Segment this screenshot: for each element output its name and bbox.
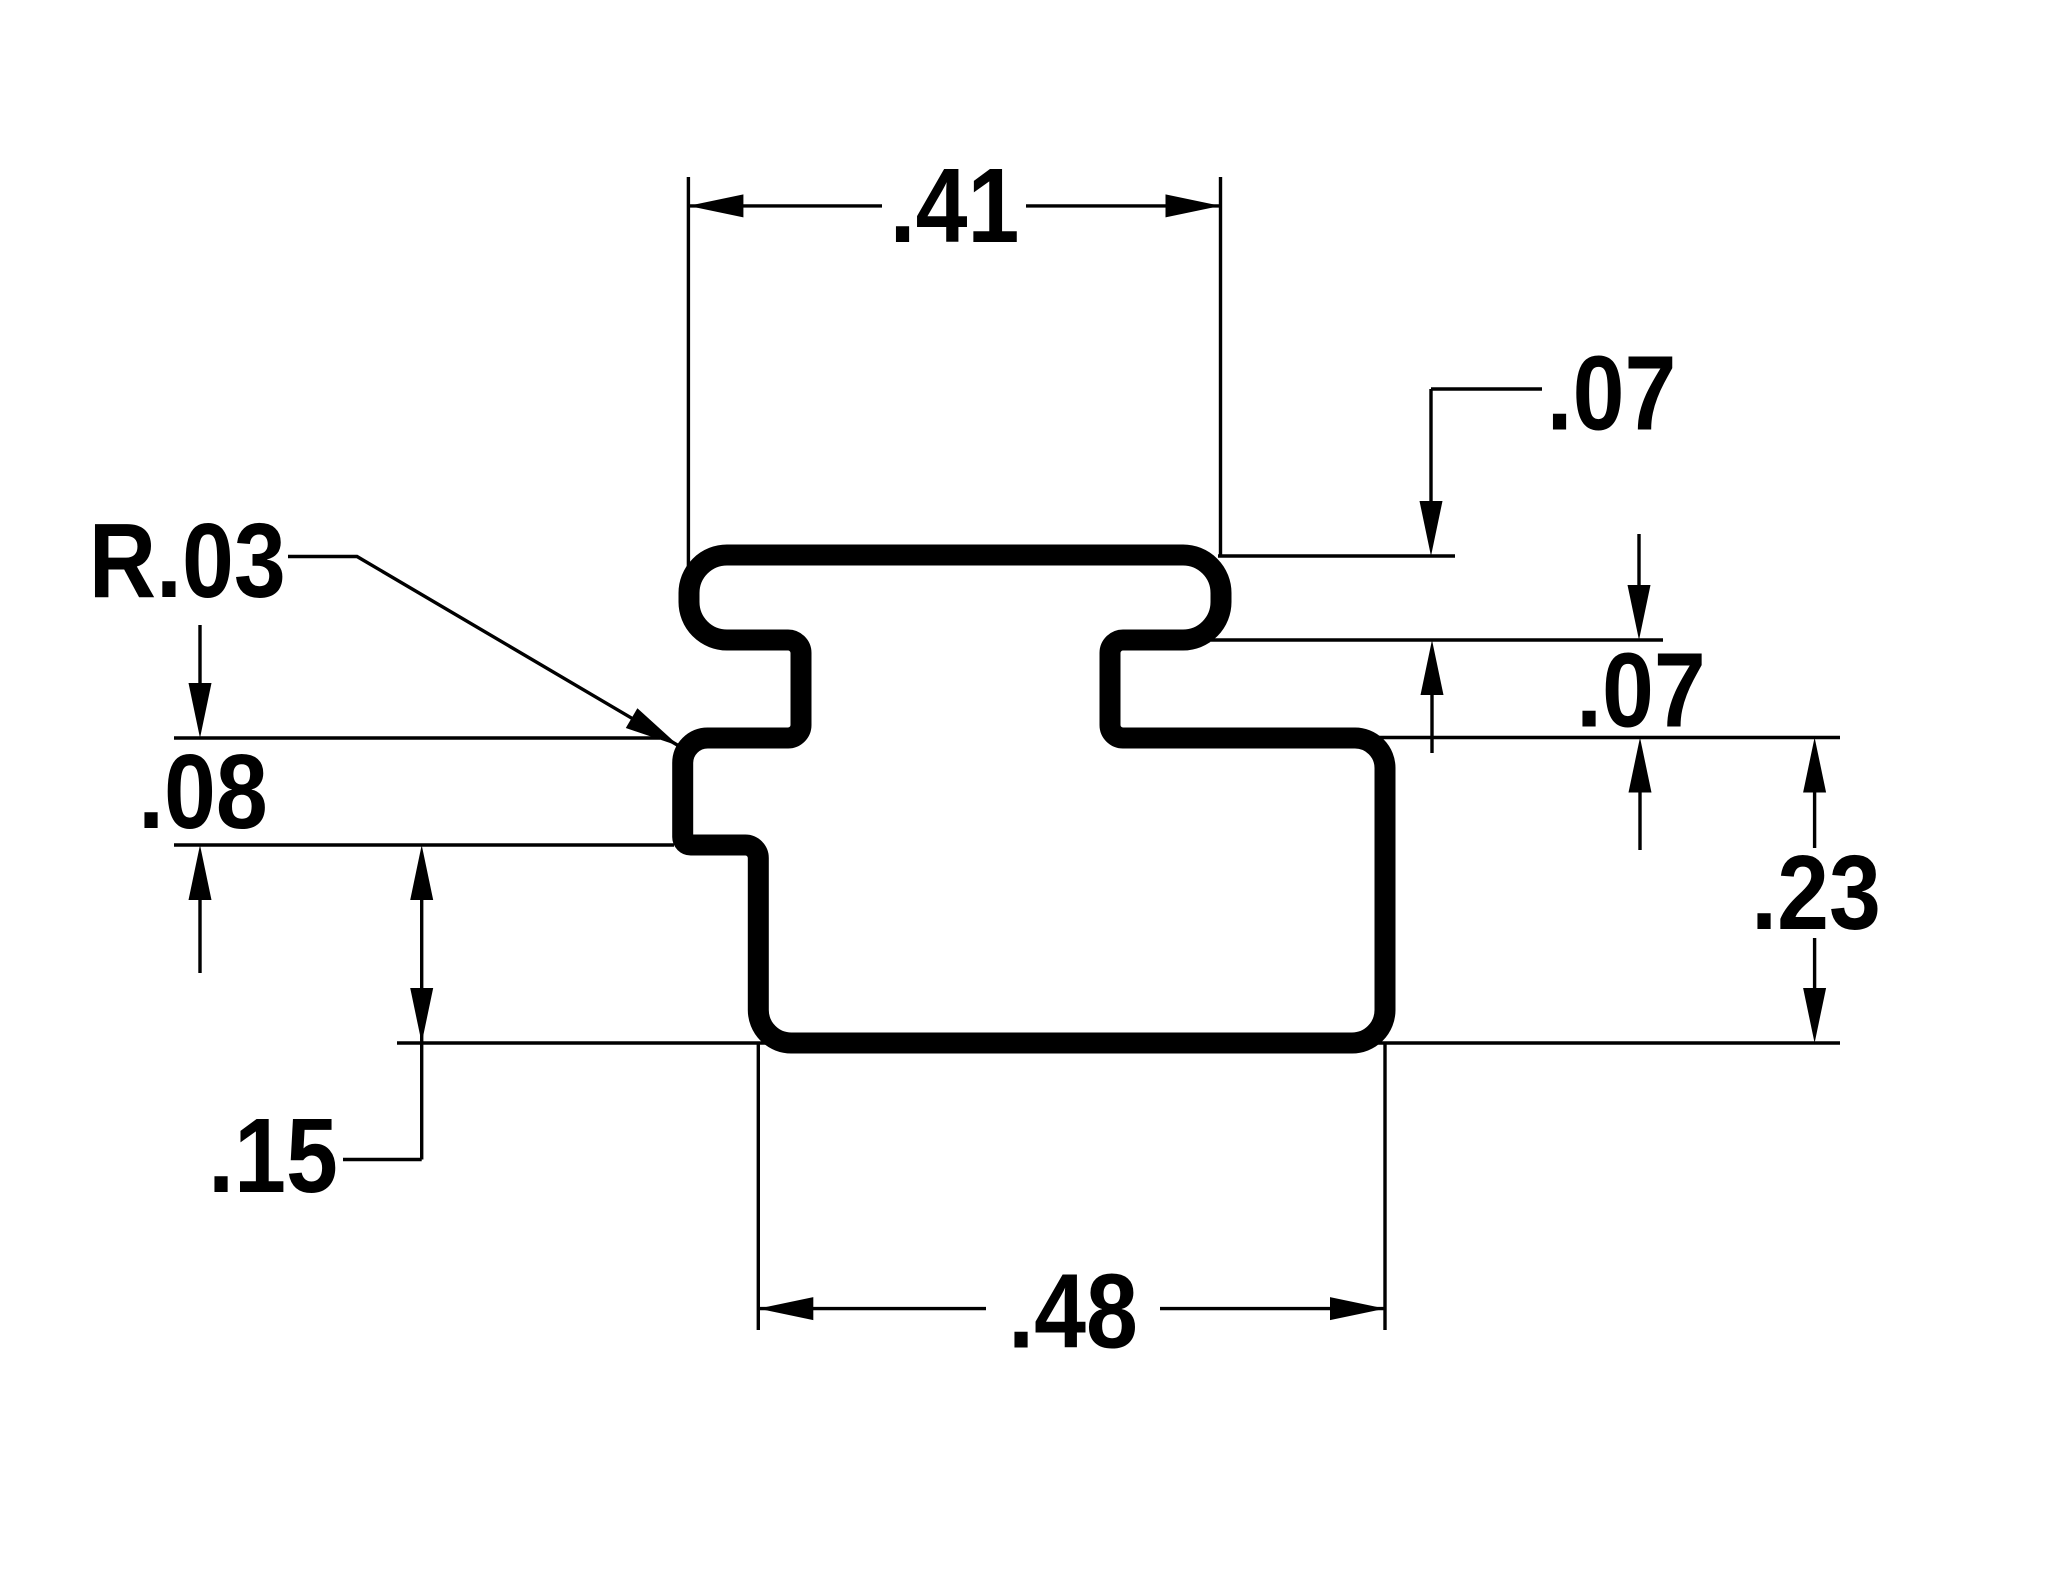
dimension .08 lower arrow shaft: [198, 900, 201, 973]
svg-text:.48: .48: [1008, 1253, 1138, 1371]
dimension .48 dimension line left segment: [758, 1307, 986, 1310]
dimension .08 upper arrowhead: [189, 683, 212, 738]
dimension .15 arrow shaft: [420, 900, 423, 1160]
extension line of bar top surface (for .07 upper): [1218, 554, 1455, 557]
dimension .41 left arrowhead: [688, 194, 743, 217]
extension line of bar underside (for .07 dims): [1211, 638, 1663, 641]
dimension .08 lower arrowhead: [189, 845, 212, 900]
dimension .41 dimension line right segment: [1026, 204, 1221, 207]
dimension .23 upper arrow shaft: [1813, 793, 1816, 849]
dimension .07 (bar height) lower arrowhead: [1421, 640, 1444, 695]
dimension .41 extension line left: [687, 177, 690, 567]
dimension .07 (bar height) leader elbow: [1431, 387, 1542, 390]
extension line of upper step surface (for .08): [174, 736, 660, 739]
dimension .15 leader elbow: [343, 1158, 422, 1161]
svg-text:R.03: R.03: [89, 503, 286, 621]
dimension .48 extension line left: [757, 1044, 760, 1330]
dimension .23 lower arrowhead: [1803, 988, 1826, 1043]
dimension .07 (step height) lower arrowhead: [1629, 738, 1652, 793]
dimension .07 (bar height) upper arrowhead: [1420, 501, 1443, 556]
profile outline (extrusion cross-section): [683, 555, 1385, 1043]
svg-text:.41: .41: [890, 148, 1020, 266]
extension line of body top surface (for .07 lower / .23): [1374, 736, 1840, 739]
dimension .48 right arrowhead: [1330, 1297, 1385, 1320]
svg-text:.08: .08: [138, 734, 268, 852]
svg-text:.07: .07: [1547, 335, 1677, 453]
dimension .07 (step height) lower arrow shaft: [1638, 793, 1641, 851]
dimension .48 dimension line right segment: [1160, 1307, 1385, 1310]
dimension .15 lower arrowhead: [410, 988, 433, 1043]
dimension .48 extension line right: [1383, 1044, 1386, 1330]
extension line of body bottom surface (for .15 / .23): [397, 1041, 1840, 1044]
dimension .07 (step height) upper arrowhead: [1628, 585, 1651, 640]
dimension .23 lower arrow shaft: [1813, 938, 1816, 990]
dimension .15 upper arrowhead: [410, 845, 433, 900]
dimension .07 (step height) upper arrow shaft: [1637, 534, 1640, 590]
extension line of lower step surface (for .08 / .15): [174, 843, 674, 846]
svg-text:.15: .15: [208, 1098, 338, 1216]
dimension .07 (bar height) upper arrow shaft: [1429, 389, 1432, 505]
svg-text:.23: .23: [1751, 834, 1881, 952]
dimension .23 upper arrowhead: [1803, 738, 1826, 793]
dimension .07 (bar height) lower arrow shaft: [1430, 695, 1433, 753]
dimension .41 right arrowhead: [1166, 194, 1221, 217]
dimension .08 upper arrow shaft: [198, 625, 201, 688]
radius callout R.03 arrowhead: [626, 708, 679, 746]
dimension .41 dimension line left segment: [688, 204, 882, 207]
svg-text:.07: .07: [1576, 632, 1706, 750]
dimension .41 extension line right: [1219, 177, 1222, 556]
dimension .48 left arrowhead: [758, 1297, 813, 1320]
radius callout R.03 leader: [288, 557, 679, 747]
